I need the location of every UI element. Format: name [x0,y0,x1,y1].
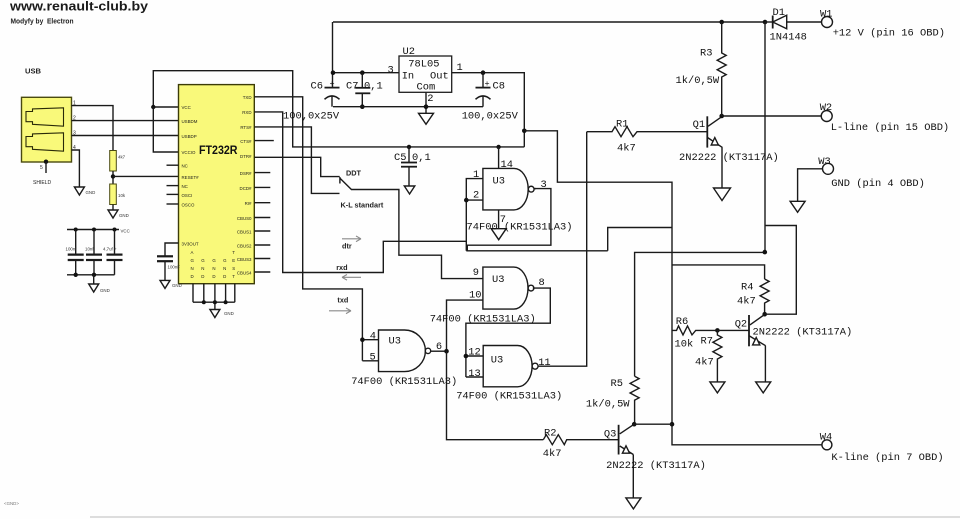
svg-text:CBUS4: CBUS4 [237,271,252,276]
transistor Q1 2N2222 [707,116,722,188]
svg-text:74F00 (KR1531LA3): 74F00 (KR1531LA3) [467,222,573,234]
wire gate A inputs tie [466,179,483,251]
svg-text:3: 3 [541,179,547,191]
capacitor C8 100,0x25V [476,73,491,107]
node C8 top [481,70,486,75]
wire tap to RESET# [113,175,179,177]
node cap2 bottom [92,273,96,277]
gate U3b (pins 9,10 -> 8) [483,267,534,309]
svg-text:U3: U3 [491,355,503,367]
wire FT232R ground pins [193,284,235,310]
wire gnd stub [93,275,95,284]
svg-text:T: T [232,274,235,279]
svg-text:G: G [191,258,195,263]
switch DDT lever [340,177,352,190]
ground (FT232R) [210,310,220,318]
svg-text:N: N [223,266,226,271]
ground (C5) [404,186,415,194]
node R3 top [719,20,724,25]
svg-text:10k: 10k [675,339,694,351]
svg-text:Q3: Q3 [604,429,616,441]
resistor R2 4k7 [543,435,618,445]
svg-text:CBUS2: CBUS2 [237,244,252,249]
svg-text:1N4148: 1N4148 [770,32,807,44]
wire R5 top feed [635,252,765,376]
wire out6 down to R2 [447,351,544,440]
wire W2 L-line [722,115,822,117]
svg-text:W2: W2 [820,102,832,114]
svg-text:C7: C7 [346,81,358,93]
svg-text:U2: U2 [403,46,415,58]
wire pin7 gnd [498,210,500,229]
wire RXD net [254,112,466,273]
svg-text:Q1: Q1 [693,119,705,131]
svg-text:4k7: 4k7 [695,357,714,369]
svg-text:USBDM: USBDM [182,119,198,124]
capacitor 100nF at 3V3OUT [157,243,179,280]
resistor R7 4k7 [713,330,722,382]
svg-text:NC: NC [182,164,188,169]
svg-text:9: 9 [473,267,479,279]
resistor R1 4k7 [587,127,708,137]
node cap1 top [74,228,78,232]
svg-text:GND: GND [119,213,129,218]
svg-text:VCCIO: VCCIO [182,150,196,155]
svg-text:D: D [212,274,215,279]
wire USB pin2 to USBDM [72,120,179,122]
node gnd bus 2 [213,300,217,304]
svg-text:USBDP: USBDP [182,134,197,139]
wire out3 step [467,189,551,251]
FT232R bottom pin labels (vertical) [191,250,236,279]
svg-text:RI#: RI# [245,201,252,206]
svg-text:VCC: VCC [121,229,130,234]
capacitor 100nf [68,230,84,275]
wire divider mid [112,171,114,184]
wire Com pin down [425,92,427,113]
wire DTR# net [254,157,339,176]
svg-text:74F00 (KR1531LA3): 74F00 (KR1531LA3) [351,376,457,388]
connector W4 [822,440,832,450]
wire pin10 from out6 [447,300,483,351]
svg-text:<GND>: <GND> [4,501,19,506]
wire +12V top rail [333,21,765,23]
svg-text:100nF: 100nF [168,264,181,269]
svg-text:0,1: 0,1 [364,81,383,93]
svg-text:GND: GND [86,190,96,195]
svg-text:10k: 10k [118,193,126,198]
capacitor C7 0,1 [355,73,370,107]
node gate A inputs [464,198,469,203]
transistor Q3 2N2222 [619,424,635,498]
svg-text:+: + [485,79,490,89]
wire R4 feed [672,265,765,279]
bottom faint strip [90,516,960,518]
svg-text:E: E [232,258,235,263]
wire out6 [431,350,447,352]
wire pin14 [498,147,500,169]
node gnd bus 1 [202,300,206,304]
wire TXD net [254,97,378,361]
svg-text:12: 12 [468,347,480,359]
svg-text:4,7uf +: 4,7uf + [103,247,117,252]
svg-text:10nf: 10nf [85,247,94,252]
svg-text:SHIELD: SHIELD [33,180,51,186]
node 5V rail pin14 tap [496,145,500,149]
FT232R right pin labels [237,95,252,276]
svg-text:G: G [201,258,205,263]
svg-text:4: 4 [370,331,376,343]
svg-text:R1: R1 [616,119,628,131]
svg-text:K-line (pin 7 OBD): K-line (pin 7 OBD) [831,452,943,464]
svg-text:CBUS0: CBUS0 [237,216,252,221]
svg-text:R7: R7 [701,336,713,348]
wire VCC rail top-left loop [153,71,524,147]
node cap2 top [92,228,96,232]
svg-text:100,0x25V: 100,0x25V [283,111,340,123]
USB connector J1 [22,97,72,162]
node K-net Q3 tap [670,422,675,427]
svg-text:CBUS3: CBUS3 [237,257,252,262]
svg-text:74F00 (KR1531LA3): 74F00 (KR1531LA3) [456,390,562,402]
svg-text:GND (pin 4 OBD): GND (pin 4 OBD) [831,178,925,190]
wire Q3 collector link [634,423,672,425]
svg-text:CBUS1: CBUS1 [237,230,252,235]
wire VCCIO stub [153,107,178,152]
svg-text:0,1: 0,1 [412,152,431,164]
wire 5V branch to right network [524,131,822,445]
node C6 top [331,70,336,75]
ground (USB pin4) [74,187,84,195]
decoupling cap bank rail VCC [67,229,119,231]
node R5 bottom / Q3 collector [632,422,637,427]
svg-text:S: S [232,266,235,271]
svg-text:1k/0,5W: 1k/0,5W [586,399,630,411]
svg-text:4k7: 4k7 [118,155,126,160]
resistor 4k7 (reset divider top) [110,151,117,172]
svg-text:txd: txd [337,296,348,305]
node +12V to R5 rail [763,250,768,255]
svg-text:5: 5 [40,165,43,171]
node C7 bottom [360,104,365,109]
wire K-line sense loop [765,226,797,315]
svg-text:U3: U3 [492,274,504,286]
svg-text:C6: C6 [311,80,323,92]
wire R6 to Q2 base [717,329,749,331]
svg-text:K-L standart: K-L standart [341,201,384,210]
ground (cap bank) [89,284,99,292]
svg-text:+12 V (pin 16 OBD): +12 V (pin 16 OBD) [833,28,945,40]
wire out11 to R1 column [538,132,587,366]
svg-text:3V3OUT: 3V3OUT [182,242,199,247]
svg-text:R4: R4 [741,282,753,294]
capacitor C6 100,0x25V [325,88,340,107]
node Q1 collector [719,114,724,119]
svg-text:www.renault-club.by: www.renault-club.by [9,0,149,14]
ground (R7) [710,382,725,393]
node txd split [360,337,365,342]
IC U1 FT232R [179,85,255,284]
transistor Q2 2N2222 [749,315,766,382]
svg-text:DSR#: DSR# [240,171,252,176]
node 5V branch [522,129,527,134]
node D1 anode column [763,20,768,25]
svg-text:100nf: 100nf [66,247,78,252]
node VCC pin junction [151,105,155,109]
svg-text:RTS#: RTS# [240,125,252,130]
ground (divider) [108,210,118,218]
resistor R6 10k [672,326,717,335]
svg-text:USB: USB [25,67,42,76]
resistor R3 1k/0,5W [717,22,726,116]
ground (78L05 Com) [419,113,434,124]
svg-text:G: G [212,258,216,263]
svg-text:T: T [232,250,235,255]
svg-text:R3: R3 [700,48,712,60]
svg-text:GND: GND [224,311,234,316]
ground (Q1 emitter) [714,188,731,201]
svg-text:Modyfy by Electron: Modyfy by Electron [11,17,74,26]
svg-text:Q2: Q2 [735,319,747,331]
gate U3c (pins 4,5 -> 6) [379,330,431,372]
wire 78L05 output rail [452,73,525,147]
svg-text:D: D [201,274,204,279]
svg-text:14: 14 [501,159,513,171]
ground (Q3 emitter) [626,498,641,509]
svg-text:4k7: 4k7 [543,448,562,460]
svg-text:2N2222 (KT3117A): 2N2222 (KT3117A) [606,460,706,472]
svg-text:TXD: TXD [243,95,252,100]
svg-text:R2: R2 [544,427,556,439]
svg-text:D1: D1 [773,7,785,19]
ground (U3 pin7) [491,229,506,240]
svg-text:rxd: rxd [336,263,347,272]
wire 78L05 input rail [333,72,399,74]
svg-text:5: 5 [370,351,376,363]
svg-text:DTR#: DTR# [240,154,252,159]
svg-text:8: 8 [539,277,545,289]
wire out3 stub [534,188,536,190]
ground (3V3OUT cap) [160,280,170,288]
svg-text:4k7: 4k7 [617,143,636,155]
wire W3 to gnd [798,169,823,202]
svg-text:1k/0,5W: 1k/0,5W [676,75,720,87]
wire +12V column [764,22,766,252]
svg-text:+: + [330,79,335,89]
svg-text:74F00 (KR1531LA3): 74F00 (KR1531LA3) [430,314,536,326]
FT232R right NC stubs [254,141,273,272]
wire upper-mid link [608,228,672,251]
svg-text:GND: GND [172,283,182,288]
wire RTS# net [254,127,339,193]
wire switch common to pin9 [351,190,483,279]
svg-text:N: N [201,266,204,271]
USB pin number labels [40,101,76,172]
svg-text:CTS#: CTS# [240,139,252,144]
svg-text:W4: W4 [820,432,832,444]
svg-text:78L05: 78L05 [408,59,439,71]
svg-text:N: N [212,266,215,271]
svg-text:A: A [191,250,194,255]
node Q2 base / R7 [715,328,720,333]
resistor R5 1k/0,5W [630,376,639,424]
node C7 top [360,70,365,75]
node USB pin5 [44,160,48,164]
svg-text:L-line (pin 15 OBD): L-line (pin 15 OBD) [831,122,949,134]
svg-text:U3: U3 [389,335,401,347]
svg-text:DCD#: DCD# [240,186,253,191]
svg-text:13: 13 [468,368,480,380]
resistor 10k (reset divider bottom) [110,184,117,205]
svg-text:4k7: 4k7 [737,296,756,308]
svg-text:FT232R: FT232R [199,143,238,157]
svg-text:In: In [402,71,414,83]
node 5V rail C5 tap [407,145,411,149]
node gnd bus 3 [224,300,228,304]
svg-text:R6: R6 [676,316,688,328]
node cap3 top [113,228,117,232]
FT232R NC / OSC stubs [167,165,179,204]
node cap1 bottom [74,273,78,277]
svg-text:dtr: dtr [342,242,352,251]
svg-text:DDT: DDT [346,169,362,178]
connector W2 [821,111,832,122]
svg-text:C8: C8 [493,81,505,93]
connector W3 [823,163,834,174]
svg-text:W1: W1 [820,9,832,21]
ground (W3) [790,201,805,212]
svg-text:2N2222 (KT3117A): 2N2222 (KT3117A) [753,327,853,339]
wire C6 drop from top rail [332,22,334,88]
svg-text:RESET#: RESET# [182,175,200,180]
resistor R4 4k7 [760,279,769,314]
node out6 split [444,349,449,354]
node Q2 collector [762,312,767,317]
svg-text:D: D [191,274,194,279]
svg-text:D: D [223,274,226,279]
svg-text:W3: W3 [818,156,830,168]
gate U3a (pins 1,2 -> 3) [483,168,534,210]
svg-text:RXD: RXD [242,110,251,115]
wire shield stub [45,162,47,173]
gate U3d (pins 12,13 -> 11) [483,346,538,387]
capacitor C5 0,1 [401,147,417,186]
svg-text:Com: Com [417,81,436,93]
node divider tap [111,174,115,178]
node gate D inputs [464,354,469,359]
svg-text:OSCI: OSCI [182,193,193,198]
svg-text:G: G [223,258,227,263]
svg-text:VCC: VCC [182,105,191,110]
wire 10k to gnd [112,205,114,211]
svg-text:OSCO: OSCO [182,203,196,208]
diode D1 1N4148 [765,15,822,29]
svg-text:11: 11 [538,357,550,369]
wire USB pin4 to gnd [72,150,80,187]
regulator U2 78L05 [399,46,452,93]
svg-text:U3: U3 [493,176,505,188]
ground (Q2 emitter) [756,382,771,393]
FT232R left pin labels [182,105,200,247]
svg-text:R5: R5 [611,378,623,390]
svg-text:N: N [191,266,194,271]
connector W1 [822,17,833,28]
svg-text:NC: NC [182,184,188,189]
svg-text:2: 2 [427,93,433,105]
capacitor 10nf [86,230,102,275]
wire regulator gnd rail [333,106,483,108]
wire out8 to gate D inputs [466,288,550,377]
svg-text:GND: GND [100,288,110,293]
wire mid horizontal (out3 net) [466,250,607,252]
cap bank gnd rail [67,274,115,276]
svg-text:C5: C5 [394,152,406,164]
svg-text:3: 3 [388,65,394,77]
wire USB pin3 to USBDP [72,135,179,137]
wire USB pin1 to divider [72,106,114,151]
svg-text:2N2222 (KT3117A): 2N2222 (KT3117A) [679,152,779,164]
capacitor 4,7uf [107,230,123,275]
svg-text:100,0x25V: 100,0x25V [462,111,519,123]
